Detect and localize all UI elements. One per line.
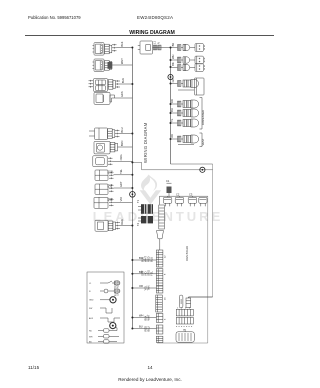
main board connector J2	[132, 269, 163, 286]
thermistor (left row 8)	[95, 170, 132, 180]
svg-text:WHT: WHT	[120, 58, 124, 64]
relay K2 connector (left row 2)	[93, 59, 133, 72]
svg-text:BLU: BLU	[147, 326, 151, 331]
watermark logo flame	[141, 175, 157, 192]
svg-text:8: 8	[165, 273, 167, 275]
svg-text:MAIN BOARD: MAIN BOARD	[186, 246, 189, 261]
wire middle bus to right drop	[171, 163, 213, 165]
svg-text:BLU: BLU	[150, 257, 154, 262]
connector funnel	[157, 231, 164, 251]
svg-text:OR: OR	[139, 284, 143, 288]
ring node on middle bus	[168, 74, 173, 79]
svg-text:OR: OR	[170, 134, 174, 138]
fan motor (right row 2)	[171, 56, 205, 64]
svg-text:L1: L1	[89, 283, 92, 285]
capacitor C3	[188, 196, 197, 206]
capacitor C4	[199, 197, 207, 206]
svg-text:YL: YL	[170, 118, 174, 122]
door switch assembly (right row 4)	[171, 78, 205, 95]
svg-text:BRN: BRN	[120, 140, 124, 146]
svg-text:BU: BU	[139, 325, 143, 329]
user interface row 6	[171, 109, 199, 117]
svg-text:16: 16	[165, 297, 167, 300]
wash pump M2 (left row 6)	[94, 141, 132, 154]
svg-text:WH: WH	[171, 54, 175, 58]
svg-text:P2: P2	[110, 170, 114, 174]
terminal box row N	[100, 289, 120, 293]
svg-text:N: N	[157, 42, 161, 44]
wire capacitor row to bottom right	[157, 196, 208, 343]
svg-text:C1: C1	[166, 179, 170, 183]
svg-text:VIO: VIO	[119, 197, 123, 201]
svg-text:Publication No. 5995671079: Publication No. 5995671079	[28, 15, 81, 20]
svg-text:VENT: VENT	[201, 138, 205, 145]
float switch (left row 10)	[94, 197, 132, 208]
svg-text:BLK: BLK	[121, 78, 125, 83]
svg-text:N: N	[89, 291, 91, 293]
svg-text:TAN: TAN	[147, 285, 151, 290]
svg-text:P4: P4	[110, 184, 114, 188]
svg-text:BU: BU	[139, 256, 143, 260]
main board connector J5	[132, 313, 163, 322]
junction dots middle bus	[170, 47, 172, 49]
svg-text:WIRING DIAGRAM: WIRING DIAGRAM	[143, 122, 148, 163]
turbidity sensor (left row 9)	[95, 184, 132, 194]
main board connector J6	[132, 325, 163, 334]
transformer T1 windings	[138, 204, 153, 223]
vent assembly (left row 7)	[93, 156, 133, 167]
svg-text:6: 6	[165, 318, 167, 320]
svg-text:BR: BR	[139, 270, 143, 274]
main board connector J1	[132, 250, 163, 267]
wire step from left bus to ring	[132, 162, 212, 169]
user interface row 8	[171, 135, 199, 145]
terminal box ground ring 2	[110, 323, 116, 329]
ring node right	[200, 167, 205, 172]
svg-text:RED: RED	[120, 219, 124, 225]
drain pump M1 (left row 5)	[89, 128, 132, 139]
thermal cutoff box	[186, 297, 191, 308]
control board edge connector upper	[159, 205, 165, 229]
svg-text:BLK: BLK	[120, 41, 124, 46]
svg-text:EW24ID80QS2A: EW24ID80QS2A	[137, 15, 173, 20]
latch switch cluster (left row 4)	[94, 92, 132, 104]
heater connector ladder row 2	[176, 317, 193, 324]
svg-text:AUX: AUX	[89, 317, 94, 320]
svg-text:M: M	[183, 330, 185, 332]
svg-text:GN: GN	[171, 78, 175, 82]
group bracket lower	[200, 133, 203, 147]
user interface row 7	[171, 119, 199, 127]
svg-text:BLU: BLU	[120, 127, 124, 132]
capacitor C1	[163, 196, 172, 206]
heater element (right row 1)	[171, 44, 205, 52]
power cord P1	[138, 41, 171, 54]
svg-text:GRN: GRN	[120, 91, 124, 97]
heater connector ladder row 1	[176, 309, 193, 316]
terminal box lower rows	[98, 328, 119, 343]
middle bus wire	[170, 48, 172, 165]
svg-text:YEL: YEL	[119, 168, 123, 173]
terminal box jog wire 1	[100, 308, 112, 313]
svg-text:BU: BU	[170, 108, 174, 112]
svg-text:GRY: GRY	[119, 181, 123, 187]
left bus wire	[131, 48, 133, 329]
svg-text:RD: RD	[89, 331, 92, 333]
dispenser (right row 3)	[171, 64, 205, 72]
svg-text:YEL: YEL	[150, 271, 154, 276]
ring node on left bus	[130, 192, 136, 198]
user interface row 5	[171, 100, 199, 108]
junction dots left bus	[131, 47, 133, 49]
main board connector J7	[156, 336, 163, 343]
main board connector J4	[156, 295, 163, 312]
terminal box outline	[87, 272, 124, 343]
svg-text:WH: WH	[89, 336, 93, 338]
svg-text:12: 12	[165, 255, 167, 258]
group bracket upper	[200, 98, 203, 130]
capacitor C2	[175, 196, 184, 206]
wire thermal cutoff to drop	[188, 296, 212, 298]
relay K1 connector (left row 1)	[93, 43, 133, 56]
svg-text:ORG: ORG	[119, 154, 123, 160]
svg-text:DISPENSER: DISPENSER	[201, 110, 205, 125]
svg-text:11/15: 11/15	[28, 365, 40, 370]
fuse F1 above capacitor row	[167, 183, 172, 197]
svg-text:RD: RD	[170, 99, 174, 103]
wash motor	[176, 329, 194, 342]
svg-text:WH: WH	[139, 314, 143, 318]
capacitor row left drop	[159, 196, 161, 204]
terminal box ground ring 1	[100, 297, 116, 303]
header rule	[25, 35, 274, 37]
terminal box row L1	[100, 281, 120, 285]
svg-text:BK: BK	[171, 62, 175, 66]
svg-text:14: 14	[147, 365, 153, 370]
svg-text:GND: GND	[89, 300, 94, 302]
svg-text:P6: P6	[110, 197, 114, 201]
terminal box jog wire 2	[100, 318, 120, 322]
svg-text:BK: BK	[171, 43, 175, 47]
svg-text:L1: L1	[153, 41, 157, 44]
svg-text:SW: SW	[89, 308, 92, 310]
watermark logo V	[140, 190, 162, 204]
fuse holder bottom right	[179, 295, 183, 308]
svg-text:LEADVENTURE: LEADVENTURE	[93, 209, 224, 224]
water valve (left row 11)	[95, 220, 132, 231]
svg-text:WHT: WHT	[147, 314, 151, 320]
dashed separator	[176, 326, 194, 328]
svg-text:C3: C3	[189, 192, 193, 196]
svg-text:C2: C2	[176, 192, 180, 196]
watermark logo V inner notch	[147, 190, 153, 194]
main board connector J3	[132, 286, 163, 293]
svg-text:ELECTRODE: ELECTRODE	[113, 280, 117, 296]
svg-text:T1: T1	[136, 199, 140, 203]
svg-text:Rendered by LeadVenture, Inc.: Rendered by LeadVenture, Inc.	[118, 377, 182, 382]
capacitor row top rail	[160, 195, 208, 197]
switch S1 cluster (left row 3)	[89, 79, 133, 92]
